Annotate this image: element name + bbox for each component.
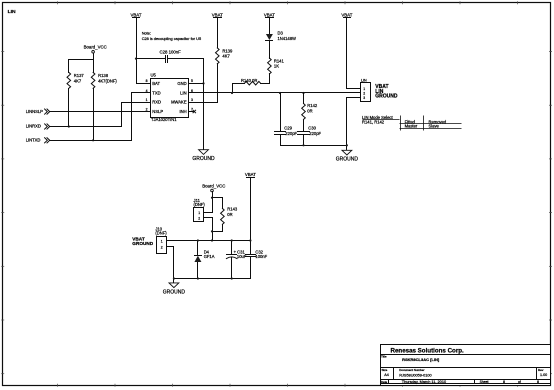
svg-text:MWAKE: MWAKE [171,100,187,105]
wire R141 to R140 [261,74,270,84]
capacitor C30 [298,126,322,136]
wire connector pin3 to ground [347,98,361,151]
title block [381,345,551,386]
ground symbol 2 [336,150,359,162]
svg-text:1: 1 [161,239,163,243]
wire ground rail [281,145,347,147]
capacitor C29 [275,126,298,136]
node junction pin2/bottom rail [173,277,175,279]
svg-text:R142: R142 [307,103,318,108]
node junction C29/LIN [279,92,281,94]
wire C30 to ground rail [303,135,305,146]
diode D3 [266,31,297,41]
node junction R137/LINRXD [68,125,70,127]
svg-text:5: 5 [191,79,193,83]
node junction GND pin [202,82,204,84]
svg-text:GND: GND [177,81,186,86]
svg-text:GROUND: GROUND [375,94,398,100]
svg-text:Date: Date [381,380,388,384]
port LINTXD [26,138,50,143]
note text [142,31,201,41]
svg-text:LIN: LIN [8,9,16,15]
svg-text:U5: U5 [151,73,157,78]
svg-text:4K7: 4K7 [74,79,82,84]
wire Board_VCC to R138 [93,60,95,73]
svg-text:R141, R142: R141, R142 [362,119,385,124]
svg-text:Document Number: Document Number [399,368,424,372]
resistor R137 [67,72,84,88]
wire R139 to MWAKE [217,64,219,103]
svg-text:0R: 0R [227,212,232,217]
svg-text:(DNF): (DNF) [155,230,167,235]
node junction C31 top [231,239,233,241]
svg-text:RXD: RXD [152,100,161,105]
wire VBAT1 to U5 BAT [137,18,151,84]
net Board_VCC 2 [202,183,225,192]
svg-text:TXD: TXD [152,91,160,96]
label VBAT GROUND J10 [132,237,153,247]
node junction D4 top [197,239,199,241]
svg-text:Title: Title [381,355,387,359]
power VBAT 2 [212,12,223,17]
ground symbol 1 [192,150,215,163]
wire Board_VCC rail [69,54,94,73]
LIN mode select table [362,115,462,130]
node junction R143 top [211,197,213,199]
svg-text:Master: Master [405,123,418,128]
svg-text:C29: C29 [284,126,292,131]
svg-text:220pF: 220pF [285,131,297,136]
wire VBAT3 to D3 [269,18,271,35]
svg-text:GF1A: GF1A [204,254,215,259]
svg-text:R141: R141 [274,58,285,63]
svg-text:LINTXD: LINTXD [26,138,41,143]
node junction R138/LINTXD [92,139,94,141]
label VBAT LIN GROUND [375,84,398,100]
svg-text:R137: R137 [74,73,85,78]
wire LIN to R142 [303,93,305,104]
node junction VBAT1/C28 [135,58,137,60]
wire J10 pin2 to ground [167,247,174,283]
wire C28 left [137,58,166,60]
svg-text:VBAT: VBAT [245,172,256,177]
wire D3 to R141 [269,41,271,59]
svg-text:1: 1 [146,98,148,102]
connector LIN J [361,78,371,101]
wire C29 to ground rail [280,135,282,146]
node junction C30/rail [302,144,304,146]
node junction D4 bottom [197,277,199,279]
node junction R142/LIN [302,92,304,94]
wire R137 to LINRXD [68,89,70,127]
svg-text:C30: C30 [308,126,316,131]
svg-text:Sheet: Sheet [480,380,489,384]
svg-text:3: 3 [363,96,365,100]
svg-text:RSKR8CL3AC [LIN]: RSKR8CL3AC [LIN] [402,357,440,362]
connector J10 [155,226,167,253]
svg-text:Board_VCC: Board_VCC [84,45,107,50]
svg-text:2: 2 [161,246,163,250]
diode D4 [194,241,214,279]
svg-text:1: 1 [363,87,365,91]
svg-text:INH: INH [179,109,186,114]
svg-text:2: 2 [363,92,365,96]
svg-text:Size: Size [382,368,388,372]
svg-text:8: 8 [537,380,539,384]
connector J11 [194,198,206,222]
svg-text:LINNSLP: LINNSLP [26,109,43,114]
svg-text:1: 1 [198,211,200,215]
resistor R140 [241,78,261,85]
capacitor C31 polarized [226,241,246,279]
svg-text:0R: 0R [307,109,312,114]
svg-text:Rev: Rev [538,368,544,372]
wire LIN pin to connector [189,92,361,94]
svg-text:VBAT: VBAT [212,12,223,17]
svg-text:C28 100nF: C28 100nF [160,50,182,55]
wire VBAT rail top [167,240,251,242]
svg-text:R139: R139 [222,48,233,53]
svg-text:C28 is decoupling capacitor fo: C28 is decoupling capacitor for U5 [142,36,201,41]
svg-text:A4: A4 [384,373,389,377]
node junction C31 bottom [231,277,233,279]
power VBAT 4 [341,12,352,17]
wire J11 pin1 [204,212,213,214]
wire C28 right to GND net [168,59,204,150]
wire ground rail bottom [174,278,251,280]
svg-text:GROUND: GROUND [163,290,186,296]
svg-text:100nF: 100nF [255,254,267,259]
resistor R138 [91,72,117,88]
svg-text:Thursday, March 11, 2010: Thursday, March 11, 2010 [402,380,446,384]
power VBAT 1 [130,12,141,17]
svg-text:VBAT: VBAT [264,12,275,17]
wire R142 to C30 [303,120,305,132]
svg-text:LINRXD: LINRXD [26,124,41,129]
wire R140 to LIN net [233,84,245,93]
wire VBAT4 to connector pin1 [347,18,361,89]
wire MWAKE pin [189,102,218,104]
op-amp U5 transceiver TJA1020 [151,73,189,122]
power VBAT 5 [245,172,256,177]
svg-text:1K: 1K [274,64,279,69]
wire VBAT5 to rail [250,178,252,241]
svg-text:2: 2 [198,216,200,220]
svg-text:Slave: Slave [429,123,440,128]
svg-text:4K7: 4K7 [222,54,230,59]
wire LINNSLP to NSLP [50,111,151,113]
node junction rail/ground drop [346,144,348,146]
svg-text:8: 8 [503,380,505,384]
svg-text:TJA1020T/N1: TJA1020T/N1 [151,117,177,122]
svg-text:3: 3 [191,98,193,102]
svg-text:2: 2 [146,108,148,112]
wire R138 to LINTXD [93,89,95,141]
svg-text:BAT: BAT [152,81,160,86]
ground symbol 3 [163,283,186,296]
pin INH no-connect [189,110,196,113]
wire Board_VCC2 down [212,192,214,213]
svg-text:Renesas Solutions Corp.: Renesas Solutions Corp. [391,347,465,354]
svg-text:NSLP: NSLP [152,109,163,114]
port LINRXD [26,124,50,129]
svg-text:Board_VCC: Board_VCC [202,183,225,188]
svg-text:1N4148W: 1N4148W [278,36,297,41]
resistor R142 [302,103,318,119]
svg-text:VBAT: VBAT [130,12,141,17]
svg-text:R143: R143 [227,207,238,212]
node junction C32 top [249,239,251,241]
svg-text:of: of [518,380,521,384]
wire J11 pin2 to rail [204,218,213,241]
svg-text:RJS58U0059-0100: RJS58U0059-0100 [399,373,431,377]
svg-text:GROUND: GROUND [132,241,153,246]
svg-text:GROUND: GROUND [192,156,215,162]
wire GND pin [189,83,204,85]
node junction R140/LIN [231,92,233,94]
wire LINRXD to RXD [50,103,151,127]
resistor R139 [216,48,233,64]
svg-text:GROUND: GROUND [336,157,359,163]
power VBAT 3 [264,12,275,17]
resistor R141 [268,58,285,74]
svg-text:8: 8 [146,79,148,83]
svg-text:220pF: 220pF [309,131,321,136]
capacitor C28 [160,50,182,63]
svg-text:R140 0R: R140 0R [241,78,257,83]
node junction VCC drop on rail [211,239,213,241]
svg-text:1.00: 1.00 [540,373,547,377]
svg-text:4K7(DNF): 4K7(DNF) [98,79,117,84]
svg-text:(DNF): (DNF) [194,202,206,207]
resistor R143 [213,198,238,232]
net Board_VCC 1 [84,45,107,54]
wire LIN to C29 [280,93,282,132]
svg-text:4: 4 [146,89,148,93]
wire VBAT2 to R139 [217,18,219,48]
svg-text:LIN: LIN [361,78,367,82]
capacitor C32 [246,241,268,279]
svg-text:LIN: LIN [180,91,186,96]
node junction R143 bottom [211,230,213,232]
svg-text:D3: D3 [278,31,284,36]
svg-text:R138: R138 [98,73,109,78]
wire LINTXD to TXD [50,93,151,141]
port LINNSLP [26,109,50,114]
svg-text:VBAT: VBAT [341,12,352,17]
